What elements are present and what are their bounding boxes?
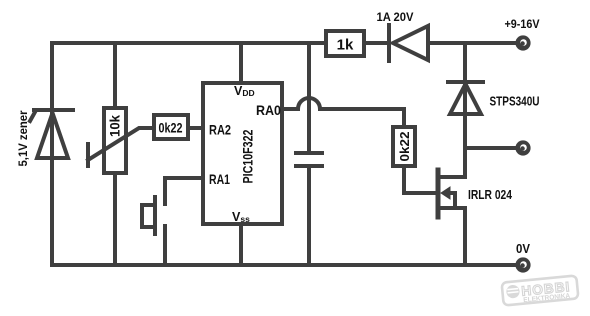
zener D1 5,1V <box>30 110 73 158</box>
wire gate <box>404 166 436 193</box>
svg-text:0k22: 0k22 <box>159 120 183 136</box>
svg-text:1k: 1k <box>337 37 354 54</box>
wire right branch (schottky + drain) <box>463 43 467 177</box>
svg-text:PIC10F322: PIC10F322 <box>240 129 256 183</box>
wire RA1 to button <box>165 178 203 204</box>
wire 1k to diode <box>364 41 388 45</box>
svg-text:0V: 0V <box>516 242 531 256</box>
svg-text:RA0: RA0 <box>256 102 281 118</box>
terminal 0V <box>515 257 530 272</box>
wire pot top <box>113 43 117 108</box>
watermark logo hobbielektronika <box>502 275 579 306</box>
diode D2 1A 20V <box>389 25 428 61</box>
wire source to 0V rail <box>463 208 467 265</box>
resistor 0k22 (to RA2) <box>154 115 188 139</box>
wire Vss pin to bottom rail <box>239 224 243 265</box>
svg-text:STPS340U: STPS340U <box>490 95 540 109</box>
wire diode to +V terminal <box>428 41 516 45</box>
wire cap branch bottom <box>307 168 311 265</box>
terminal middle (load) <box>515 140 530 155</box>
resistor 0k22 (gate) <box>393 127 415 166</box>
wire left branch (zener) <box>50 43 54 265</box>
svg-text:0k22: 0k22 <box>397 132 412 162</box>
wire VDD pin to top rail <box>239 43 243 83</box>
svg-text:RA1: RA1 <box>209 171 230 187</box>
resistor R 1k <box>326 31 364 56</box>
svg-text:RA2: RA2 <box>209 122 231 138</box>
wire bottom rail 0V net <box>52 263 516 267</box>
svg-text:1A 20V: 1A 20V <box>377 10 414 24</box>
capacitor C1 <box>296 153 322 166</box>
svg-text:5,1V zener: 5,1V zener <box>16 110 30 166</box>
wire top rail VDD net <box>52 41 326 45</box>
potentiometer R 10k <box>88 108 154 173</box>
IC U1 PIC10F322 box <box>203 83 282 224</box>
svg-text:+9-16V: +9-16V <box>505 17 540 31</box>
svg-text:IRLR 024: IRLR 024 <box>468 187 513 202</box>
wire cap branch top <box>307 43 311 151</box>
transistor Q1 IRLR 024 MOSFET <box>438 170 465 217</box>
wire 0k22 to RA2 <box>188 126 203 130</box>
terminal +9-16V <box>515 35 530 50</box>
wire to middle terminal <box>465 146 516 150</box>
wire RA0 with hop over cap branch <box>283 98 404 127</box>
svg-text:10k: 10k <box>107 115 123 137</box>
wire pot bottom <box>113 173 117 265</box>
schottky diode STPS340U <box>448 82 483 114</box>
push button S1 <box>142 197 165 265</box>
